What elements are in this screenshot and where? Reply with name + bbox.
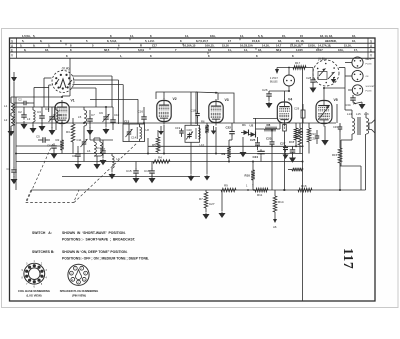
valve V5 <box>316 101 332 124</box>
wire x148 drop <box>147 138 149 154</box>
svg-text:A6: A6 <box>273 225 277 229</box>
ground L9 <box>111 168 113 172</box>
aerial terminal <box>11 77 17 82</box>
svg-text:5,: 5, <box>48 43 50 47</box>
svg-text:17,: 17, <box>354 48 358 52</box>
svg-text:SWITCH A:: SWITCH A: <box>32 231 52 235</box>
wire y91 lamp to C26 <box>269 90 289 92</box>
speaker plug circle 1 <box>352 57 363 68</box>
svg-text:L2: L2 <box>4 118 8 122</box>
junction dots bus <box>247 189 249 191</box>
wire V3 down <box>215 127 217 154</box>
svg-text:11,: 11, <box>228 48 232 52</box>
ground inside switch B <box>333 77 335 79</box>
svg-text:C5: C5 <box>36 135 40 139</box>
wires plugs left <box>345 62 352 64</box>
svg-text:C17: C17 <box>289 140 295 144</box>
svg-text:1,5,5A,: 1,5,5A, <box>22 34 31 38</box>
svg-text:C33: C33 <box>333 125 338 129</box>
wire bus y123 <box>16 122 336 124</box>
svg-text:R9: R9 <box>222 152 226 156</box>
valve V1 <box>55 103 69 124</box>
svg-text:L16: L16 <box>364 112 369 116</box>
svg-text:R4: R4 <box>158 156 162 160</box>
coil L3 <box>33 110 35 122</box>
output transformer coil L15 <box>366 118 369 134</box>
wire route transformer return <box>340 165 361 167</box>
svg-text:V2: V2 <box>173 97 177 101</box>
svg-text:L3: L3 <box>27 117 31 121</box>
svg-text:15, 16,: 15, 16, <box>296 39 304 43</box>
ground L3 <box>32 122 34 126</box>
svg-text:R3: R3 <box>66 130 70 134</box>
svg-text:14,: 14, <box>185 34 189 38</box>
svg-text:SOCKET: SOCKET <box>366 86 376 88</box>
dot bus x284 <box>283 189 285 191</box>
svg-text:14/15: 14/15 <box>296 48 303 52</box>
svg-text:L5: L5 <box>78 115 82 119</box>
svg-text:C17: C17 <box>152 43 157 47</box>
svg-text:R7: R7 <box>199 197 203 201</box>
svg-text:5,: 5, <box>33 34 35 38</box>
gang dashed link to C4 <box>27 143 53 201</box>
svg-text:V3: V3 <box>225 98 229 102</box>
wire drop x34 <box>33 88 35 108</box>
ground oscillator <box>96 156 98 162</box>
svg-text:C1: C1 <box>7 167 11 171</box>
svg-text:C29: C29 <box>294 107 300 111</box>
svg-text:SWITCHES B:: SWITCHES B: <box>32 250 54 254</box>
wire y67.5 lamp feed <box>277 67 313 69</box>
speaker plug circle 3 <box>352 85 362 95</box>
ground x222 <box>221 190 223 211</box>
svg-text:C6: C6 <box>47 144 51 148</box>
wire x337 vertical <box>336 104 338 123</box>
gang dashed link to C14 <box>74 143 137 203</box>
ground below C1 <box>13 174 15 178</box>
ground C8 <box>77 158 79 162</box>
ground C17 <box>292 154 294 156</box>
wire input mid <box>10 113 12 116</box>
svg-text:C26: C26 <box>262 88 268 92</box>
wire drop x96 <box>95 88 97 107</box>
ground x191 <box>190 175 192 177</box>
coil L5 <box>84 110 87 126</box>
wire L3 top <box>32 107 34 110</box>
svg-text:C24: C24 <box>253 155 259 159</box>
rail label box left <box>16 38 18 58</box>
svg-text:L4: L4 <box>58 113 62 117</box>
svg-text:COIL BASE NUMBERING: COIL BASE NUMBERING <box>18 289 50 293</box>
svg-text:SPEAKER PLUG NUMBERING: SPEAKER PLUG NUMBERING <box>60 289 99 293</box>
svg-text:C19: C19 <box>175 126 181 130</box>
svg-text:14,17A,18,: 14,17A,18, <box>318 43 331 47</box>
dot bus x340 <box>339 189 341 191</box>
ground below U1 <box>242 137 244 150</box>
svg-text:8,: 8, <box>24 48 26 52</box>
svg-text:15: 15 <box>300 34 303 38</box>
ground L2 <box>10 128 12 131</box>
svg-text:L15: L15 <box>356 112 361 116</box>
valve V4 <box>277 102 291 123</box>
wire x277 r8 end <box>277 128 281 130</box>
wire aerial down <box>13 82 15 168</box>
svg-text:E: E <box>370 49 372 53</box>
wire input top <box>11 96 62 98</box>
svg-text:PLUG: PLUG <box>366 91 372 93</box>
wire bus y146 mid <box>148 145 303 147</box>
ground C15 <box>135 175 137 177</box>
ground R6 <box>206 175 208 177</box>
svg-text:(V.B): (V.B) <box>318 57 325 61</box>
long vertical x302.5 <box>302 67 304 301</box>
svg-text:POSITIONS :- SHORT-WAVE ; B: POSITIONS :- SHORT-WAVE ; BROADCAST. <box>62 238 136 242</box>
svg-text:8, 5,6,8,: 8, 5,6,8, <box>107 39 117 43</box>
svg-text:V4: V4 <box>288 98 292 102</box>
ground C27 <box>285 153 287 155</box>
wire bus y146 left <box>16 145 62 147</box>
svg-text:C16: C16 <box>138 110 144 114</box>
svg-text:R11: R11 <box>257 193 263 197</box>
wire drop x123 to IF can 1 <box>122 85 124 124</box>
svg-text:9,: 9, <box>33 43 35 47</box>
wire y99.4 oscillator link <box>90 98 138 100</box>
ground C18 <box>151 175 153 177</box>
coil L4 <box>56 110 58 122</box>
svg-text:(V.A): (V.A) <box>62 67 70 71</box>
wire drop x118.5 to IF can 1 <box>118 80 120 124</box>
svg-text:R6: R6 <box>201 120 205 124</box>
svg-text:C11: C11 <box>77 138 82 142</box>
svg-text:15/16,: 15/16, <box>308 43 316 47</box>
svg-text:68,9: 68,9 <box>276 48 282 52</box>
switch A (V.A) wafer <box>52 71 74 93</box>
switch B inner box <box>318 72 327 80</box>
svg-text:C23: C23 <box>266 137 272 141</box>
svg-text:8,: 8, <box>40 39 42 43</box>
svg-text:C20: C20 <box>187 128 193 132</box>
svg-text:15,6,8: 15,6,8 <box>252 39 260 43</box>
svg-text:R10: R10 <box>245 174 251 178</box>
T1 leads <box>128 124 130 130</box>
rail tick marks <box>65 43 67 45</box>
svg-text:18,: 18, <box>45 48 49 52</box>
ground V2 cathode <box>160 126 162 129</box>
svg-text:6,8,9: 6,8,9 <box>138 48 144 52</box>
svg-text:68,5: 68,5 <box>104 48 110 52</box>
svg-text:L10: L10 <box>200 143 205 147</box>
svg-text:C15: C15 <box>126 169 132 173</box>
svg-text:15,: 15, <box>282 34 286 38</box>
svg-text:R9: R9 <box>224 184 228 188</box>
wire bus y176.5 <box>62 176 200 178</box>
ground C34 <box>353 102 356 104</box>
switch B (V.B) <box>313 60 339 86</box>
coil base numbering diagram <box>24 263 45 284</box>
speaker plug numbering diagram <box>68 264 89 285</box>
wire C3 top <box>40 106 42 108</box>
junction dots <box>61 122 63 124</box>
svg-text:5, L.F.F.: 5, L.F.F. <box>145 39 155 43</box>
switch A wires right <box>73 75 113 77</box>
svg-text:15,16: 15,16 <box>222 43 229 47</box>
svg-text:16,16A,15: 16,16A,15 <box>183 43 196 47</box>
svg-text:E: E <box>11 49 13 53</box>
svg-text:8,7,5,15,7: 8,7,5,15,7 <box>196 39 208 43</box>
svg-text:14,7: 14,7 <box>276 43 282 47</box>
resistor R18 horizontal <box>288 169 292 171</box>
ground C26 <box>268 97 270 101</box>
coil L10 <box>198 128 200 139</box>
lamp note arrow <box>275 69 279 74</box>
svg-text:16A,15,: 16A,15, <box>205 43 215 47</box>
svg-text:U1: U1 <box>242 123 246 127</box>
ground C12 <box>102 154 104 158</box>
wire left vertical x16 <box>15 97 17 190</box>
rail label box right <box>367 38 369 58</box>
svg-text:C10: C10 <box>114 113 120 117</box>
wire y140 osc <box>90 139 113 141</box>
wire drop x112 <box>111 76 113 107</box>
svg-text:17: 17 <box>228 39 231 43</box>
svg-text:C14: C14 <box>131 136 137 140</box>
wire V1 cathode down <box>61 125 63 140</box>
schematic border frame <box>10 38 376 301</box>
IF transformer T1 box <box>123 124 145 142</box>
svg-text:L1: L1 <box>4 104 8 108</box>
ground below C6 <box>53 150 55 152</box>
ground V3 cathode <box>213 126 215 129</box>
wire bus y161.5 <box>16 161 303 163</box>
supply rail bus lines <box>10 42 376 44</box>
svg-text:16,C6,15A: 16,C6,15A <box>240 43 253 47</box>
wire y118.4 <box>253 117 277 119</box>
svg-text:R14: R14 <box>278 200 284 204</box>
svg-text:14,16,: 14,16, <box>262 43 270 47</box>
switch B inner contact 1 <box>319 69 325 76</box>
svg-text:BULBS: BULBS <box>270 82 278 84</box>
wire V1 anode to rail <box>61 96 63 98</box>
svg-text:SHOWN IN ‘SHORT-WAVE’ POSIT: SHOWN IN ‘SHORT-WAVE’ POSITION. <box>62 231 126 235</box>
svg-text:18,: 18, <box>278 39 282 43</box>
ground C28 <box>312 83 314 86</box>
svg-text:L6: L6 <box>87 149 91 153</box>
wire V2 down <box>163 125 165 154</box>
svg-text:5,: 5, <box>22 39 24 43</box>
svg-text:V1: V1 <box>71 99 75 103</box>
wire loop over V2 <box>156 92 198 99</box>
wire osc top <box>90 106 113 108</box>
output transformer core <box>357 117 359 135</box>
dial lamp <box>284 75 295 86</box>
svg-text:BACK: BACK <box>366 58 372 61</box>
cathode resistor box below V4 <box>283 125 287 132</box>
svg-text:C7: C7 <box>91 113 95 117</box>
svg-text:L8: L8 <box>146 128 150 132</box>
svg-text:5, 6,: 5, 6, <box>258 34 263 38</box>
svg-text:U2: U2 <box>250 124 254 128</box>
oscillator coil L7 <box>100 142 102 156</box>
svg-text:C13: C13 <box>124 120 130 124</box>
wire R6 down <box>206 133 208 174</box>
svg-text:R15: R15 <box>332 153 338 157</box>
svg-text:C3: C3 <box>37 110 41 114</box>
svg-text:16A,: 16A, <box>338 48 344 52</box>
ground C4 <box>51 121 53 128</box>
svg-text:C25: C25 <box>250 138 256 142</box>
ground V5 cathode <box>324 126 326 138</box>
svg-text:V5: V5 <box>334 98 338 102</box>
svg-text:S: S <box>370 40 372 44</box>
ground C2 <box>23 121 25 124</box>
switch A wires left <box>44 77 52 79</box>
svg-text:C22: C22 <box>226 126 232 130</box>
svg-text:18: 18 <box>208 48 211 52</box>
svg-text:16,: 16, <box>352 34 356 38</box>
svg-text:C18: C18 <box>144 169 150 173</box>
valve V3 <box>209 102 223 123</box>
ground C7 <box>89 122 91 128</box>
svg-text:SHOWN IN ‘ON, DEEP TONE” POSIT: SHOWN IN ‘ON, DEEP TONE” POSITION. <box>62 250 128 254</box>
svg-text:16,: 16, <box>352 39 356 43</box>
tuning gang parallelogram <box>26 190 80 203</box>
svg-text:PLUG: PLUG <box>366 64 372 66</box>
svg-text:(PIN VIEW): (PIN VIEW) <box>72 294 86 298</box>
speaker plug circle 2 <box>352 70 363 81</box>
svg-text:R: R <box>140 43 142 47</box>
switch B inner contact 2 <box>328 73 334 80</box>
wire top x84 <box>70 106 91 108</box>
wire bus y153.5 <box>16 153 303 155</box>
wire C4 top <box>51 107 53 116</box>
svg-text:16A,: 16A, <box>210 34 216 38</box>
svg-text:C9: C9 <box>99 111 103 115</box>
wire V4 down <box>284 131 286 190</box>
transformer leads <box>351 110 353 118</box>
wire x196 drop <box>195 92 197 124</box>
valve V2 <box>157 101 171 122</box>
svg-text:HEATER,: HEATER, <box>325 39 337 43</box>
IF transformer T2 box <box>185 125 200 142</box>
coil L8 <box>140 127 142 139</box>
wire x345 <box>339 67 345 69</box>
oscillator coil L6 <box>94 142 96 156</box>
svg-text:C34: C34 <box>345 103 351 107</box>
wire C2 top <box>23 107 25 114</box>
svg-text:14,: 14, <box>130 34 134 38</box>
svg-text:5,: 5, <box>20 43 22 47</box>
wire y87.5 left <box>34 87 49 89</box>
output transformer coil L14 <box>352 118 355 134</box>
svg-text:C27: C27 <box>209 202 215 206</box>
svg-text:L14: L14 <box>347 112 352 116</box>
wire speaker down <box>365 134 367 190</box>
svg-text:(LUG VIEW): (LUG VIEW) <box>26 294 41 298</box>
svg-text:C12: C12 <box>96 146 102 150</box>
svg-text:R2: R2 <box>56 138 60 142</box>
svg-text:1,: 1, <box>120 54 122 58</box>
svg-text:15,16,: 15,16, <box>344 43 352 47</box>
speaker symbol <box>369 120 375 134</box>
svg-text:18, 14, 18,: 18, 14, 18, <box>320 34 333 38</box>
AVC bus y190 <box>31 189 366 191</box>
grid arrow across V5 <box>318 106 329 120</box>
svg-text:S: S <box>11 40 13 44</box>
svg-text:14,: 14, <box>244 48 248 52</box>
wire V5 anode <box>323 88 325 98</box>
arrow terminal A6 <box>274 212 276 219</box>
switch B pins <box>334 77 336 79</box>
svg-text:4 VOLT: 4 VOLT <box>270 78 278 80</box>
svg-text:R16: R16 <box>301 184 307 188</box>
wire drop x138 <box>137 99 139 124</box>
svg-text:117: 117 <box>341 248 356 269</box>
svg-text:POSITIONS:- OFF ; ON ; MEDIUM: POSITIONS:- OFF ; ON ; MEDIUM TONE ; DEE… <box>62 257 149 261</box>
svg-text:18,: 18, <box>258 48 262 52</box>
svg-text:C2: C2 <box>18 110 22 114</box>
svg-text:16/17: 16/17 <box>316 48 323 52</box>
ground C3 <box>41 120 43 124</box>
svg-text:R17: R17 <box>295 61 301 65</box>
svg-text:14,: 14, <box>240 34 244 38</box>
svg-text:C2: C2 <box>18 98 22 102</box>
ground R7 <box>205 208 207 212</box>
wire drop through T2 <box>190 92 192 125</box>
core L1 L2 <box>14 104 16 126</box>
wire V3 anode loop <box>218 93 234 123</box>
ground C9 <box>105 121 107 127</box>
